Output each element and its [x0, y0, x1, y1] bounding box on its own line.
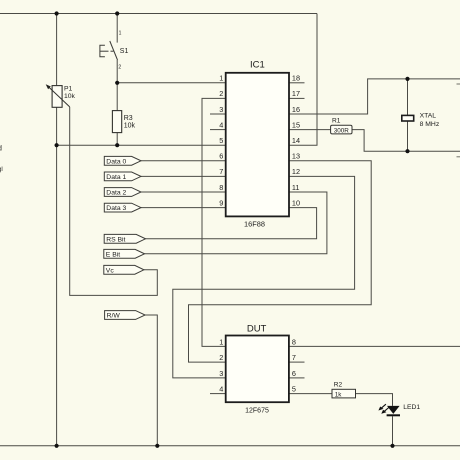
- svg-text:2: 2: [118, 65, 121, 71]
- wire XTAL top lead: [407, 79, 409, 116]
- svg-text:10: 10: [292, 198, 300, 207]
- right edge tick 2: [457, 156, 460, 158]
- potentiometer P1: [46, 84, 70, 107]
- switch S1: [100, 41, 118, 60]
- svg-text:xxd: xxd: [0, 146, 2, 153]
- node VSS-P1: [55, 143, 59, 147]
- resistor R3: [112, 111, 121, 133]
- resistor R1: [331, 125, 352, 134]
- svg-text:Data 2: Data 2: [106, 190, 126, 197]
- svg-text:3: 3: [219, 105, 223, 114]
- flag RS Bit: [104, 234, 145, 243]
- svg-text:Data 1: Data 1: [106, 174, 126, 181]
- svg-text:16F88: 16F88: [244, 219, 265, 228]
- pin numbers IC1 right: [292, 74, 300, 208]
- pin DUT pin6 stub: [289, 377, 305, 379]
- svg-text:12: 12: [292, 167, 300, 176]
- svg-text:DUT: DUT: [247, 324, 267, 335]
- wire VDD top rail: [0, 13, 317, 15]
- wire Data3 to pin9: [141, 207, 226, 209]
- svg-text:300R: 300R: [334, 127, 350, 134]
- wire VSS rail to IC1 pin5: [57, 144, 226, 146]
- svg-text:R3: R3: [124, 115, 133, 122]
- svg-text:7: 7: [292, 353, 296, 362]
- pin DUT pin4 stub: [210, 393, 226, 395]
- svg-text:3: 3: [219, 369, 223, 378]
- svg-text:14: 14: [292, 136, 300, 145]
- flag E Bit: [104, 249, 145, 258]
- wire DUT pin8 to right edge: [289, 345, 460, 347]
- svg-text:1: 1: [219, 337, 223, 346]
- LED LED1: [378, 404, 400, 416]
- pin IC1 pin18 stub: [289, 82, 305, 84]
- svg-text:11: 11: [292, 183, 300, 192]
- wire IC1 pin13 to DUT pin2: [189, 161, 372, 362]
- svg-text:17: 17: [292, 89, 300, 98]
- svg-text:9: 9: [219, 198, 223, 207]
- svg-text:Vc: Vc: [106, 267, 115, 274]
- svg-text:7: 7: [219, 167, 223, 176]
- svg-text:12F675: 12F675: [245, 408, 269, 415]
- svg-text:2: 2: [219, 353, 223, 362]
- svg-text:R2: R2: [334, 381, 343, 388]
- svg-text:E Bit: E Bit: [106, 251, 120, 258]
- svg-text:6: 6: [292, 369, 296, 378]
- pin numbers IC1 left: [219, 74, 223, 208]
- wire R3 bottom: [116, 133, 118, 146]
- wire IC1 pin14 to VDD rail: [289, 14, 317, 146]
- svg-text:RS Bit: RS Bit: [106, 236, 125, 243]
- wire Data0 to pin6: [141, 160, 226, 162]
- crystal XTAL: [402, 115, 414, 121]
- wire P1 wiper to Vc: [70, 107, 158, 296]
- wire R3 top: [116, 83, 118, 111]
- wire R2 to LED1: [356, 394, 393, 406]
- svg-text:2: 2: [219, 89, 223, 98]
- node GND-RW: [155, 444, 159, 448]
- wire P1 bottom leg to GND: [56, 107, 58, 446]
- svg-text:1: 1: [119, 31, 122, 37]
- wire IC1 pin12 to DUT pin3: [173, 176, 355, 378]
- svg-text:IC1: IC1: [250, 60, 265, 71]
- flag Data 3: [104, 203, 141, 212]
- svg-text:5: 5: [219, 136, 223, 145]
- svg-text:13: 13: [292, 152, 300, 161]
- wire IC1 pin2 to DUT pin1: [202, 98, 226, 346]
- svg-text:6: 6: [219, 152, 223, 161]
- svg-text:15: 15: [292, 120, 300, 129]
- pin IC1 pin4 stub: [210, 129, 226, 131]
- svg-text:8: 8: [292, 337, 296, 346]
- svg-text:1k: 1k: [335, 391, 343, 398]
- svg-text:4: 4: [219, 120, 223, 129]
- wire IC1 pin16 to XTAL top: [289, 79, 460, 114]
- node VDD-P1: [55, 11, 59, 15]
- pin IC1 pin3 stub: [210, 113, 226, 115]
- svg-text:R1: R1: [332, 117, 341, 124]
- wire XTAL bottom lead: [407, 121, 409, 151]
- svg-text:Data 3: Data 3: [106, 205, 126, 212]
- svg-text:8 MHz: 8 MHz: [420, 121, 440, 128]
- wire DUT pin5 to R2: [289, 393, 332, 395]
- svg-text:8: 8: [219, 183, 223, 192]
- svg-text:10k: 10k: [64, 93, 76, 100]
- wire RS Bit to IC1 pin10: [146, 208, 317, 239]
- wire S1 top: [116, 14, 118, 43]
- wire R1 to XTAL bottom: [352, 130, 460, 152]
- resistor R2: [332, 389, 356, 398]
- wire LED1 to GND: [392, 416, 394, 446]
- pin numbers DUT left: [219, 337, 223, 393]
- svg-text:10k: 10k: [124, 123, 136, 130]
- svg-text:R/W: R/W: [107, 313, 121, 320]
- wire IC1 pin15 to R1: [289, 129, 331, 131]
- svg-text:4: 4: [219, 385, 223, 394]
- svg-text:P1: P1: [64, 86, 73, 93]
- svg-text:5: 5: [292, 385, 296, 394]
- pin IC1 pin17 stub: [289, 97, 305, 99]
- node S1-R3-pin1: [115, 81, 119, 85]
- svg-text:16: 16: [292, 105, 300, 114]
- wire Data1 to pin7: [141, 175, 226, 177]
- node XTAL top: [405, 77, 409, 81]
- node GND-LED: [390, 444, 394, 448]
- node VSS-R3: [115, 143, 119, 147]
- pin DUT pin7 stub: [289, 361, 305, 363]
- wire Data2 to pin8: [141, 191, 226, 193]
- svg-text:Data 0: Data 0: [106, 158, 126, 165]
- flag Vc: [104, 265, 144, 274]
- wire E Bit to IC1 pin11: [145, 192, 327, 254]
- wire S1 to IC1 pin1: [117, 82, 226, 84]
- flag Data 1: [104, 172, 141, 181]
- svg-text:1: 1: [219, 74, 223, 83]
- wire GND bottom rail: [0, 445, 460, 447]
- svg-text:LED1: LED1: [403, 404, 420, 411]
- right edge tick 1: [457, 83, 460, 85]
- pin numbers DUT right: [292, 337, 296, 393]
- flag Data 2: [104, 188, 141, 197]
- svg-text:XTAL: XTAL: [420, 113, 437, 120]
- flag Data 0: [104, 156, 141, 165]
- node GND-P1: [55, 444, 59, 448]
- op IC1 body: [226, 73, 289, 217]
- wire P1 top leg: [56, 14, 58, 86]
- node VDD-S1: [115, 11, 119, 15]
- svg-text:18: 18: [292, 74, 300, 83]
- svg-text:S1: S1: [120, 48, 129, 55]
- wire R/W to GND: [145, 315, 157, 446]
- op DUT body: [226, 336, 289, 403]
- svg-text:xxgl: xxgl: [0, 167, 3, 173]
- flag R/W: [105, 311, 146, 320]
- node XTAL bottom: [405, 149, 409, 153]
- wire S1 bottom: [116, 60, 118, 83]
